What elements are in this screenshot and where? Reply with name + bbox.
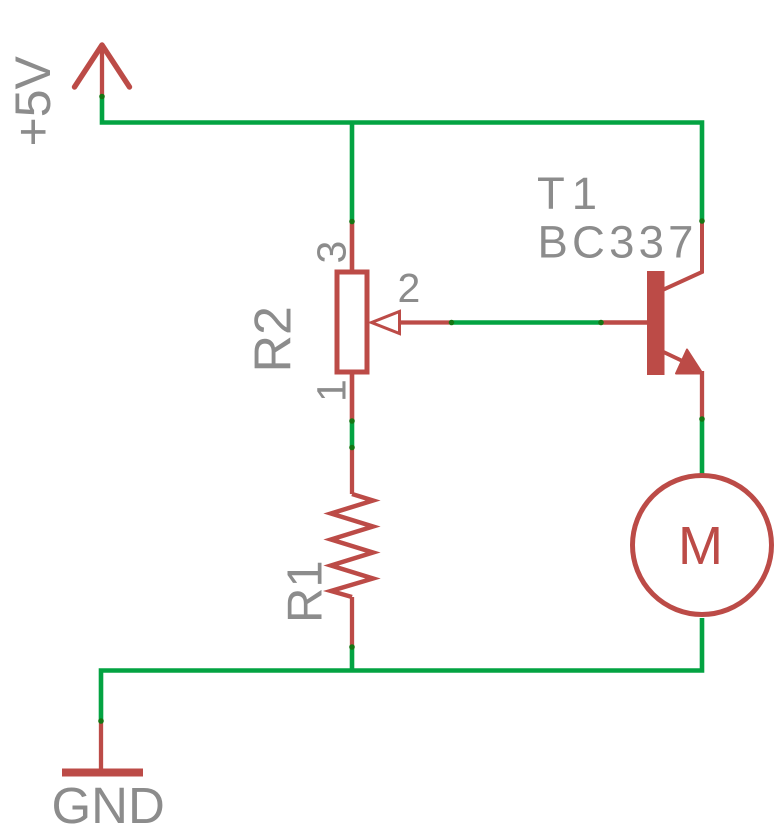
- svg-text:2: 2: [398, 265, 421, 311]
- svg-text:T1: T1: [537, 168, 604, 219]
- junction dot GND pin: [98, 718, 104, 724]
- junction dot T1 collector pin: [699, 218, 705, 224]
- junction dot T1 emitter pin: [699, 416, 705, 422]
- svg-text:R1: R1: [279, 560, 333, 623]
- motor M1: [633, 476, 772, 615]
- svg-text:1: 1: [309, 379, 355, 402]
- wire net emitter to motor: [700, 419, 705, 476]
- wire GND bottom rail: [101, 618, 702, 721]
- wire net +5V top rail: [102, 96, 702, 221]
- wire net R1 bottom to GND rail: [350, 647, 355, 671]
- junction dot R2 pin 1: [349, 418, 355, 424]
- junction dot T1 base pin: [598, 320, 604, 326]
- svg-text:R2: R2: [245, 306, 303, 372]
- junction dot R1 bottom pin: [349, 644, 355, 650]
- power +5V: [75, 45, 130, 97]
- potentiometer R2: [337, 222, 452, 421]
- svg-text:BC337: BC337: [538, 217, 698, 268]
- wire net R2 pin1 to R1: [350, 421, 355, 448]
- svg-text:+5V: +5V: [5, 55, 61, 146]
- svg-text:M: M: [678, 516, 723, 576]
- wire net from top rail down to R2 pin 3: [350, 123, 355, 223]
- resistor R1: [331, 448, 373, 648]
- junction dot +5V: [99, 94, 105, 100]
- junction dot R2 pin 3: [349, 219, 355, 225]
- transistor T1: [601, 221, 703, 419]
- svg-text:GND: GND: [52, 777, 165, 834]
- wire net wiper to transistor base: [452, 320, 601, 325]
- junction dot R1 top pin: [349, 445, 355, 451]
- ground GND: [62, 721, 143, 773]
- svg-text:3: 3: [309, 241, 355, 264]
- junction dot R2 wiper pin 2: [449, 320, 455, 326]
